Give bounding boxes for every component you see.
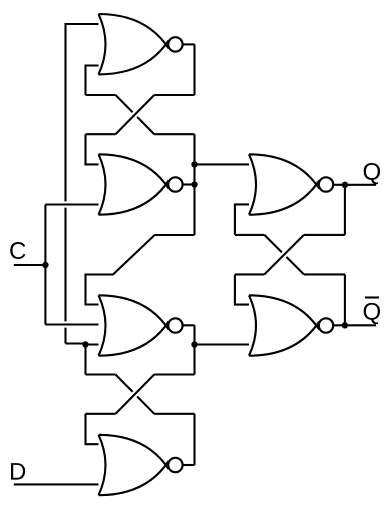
nor gate G2 (clock gate) — [99, 154, 168, 214]
wire: crossover2 top-left horizontal — [86, 373, 116, 375]
wire: right crossover top-left horizontal — [235, 234, 265, 236]
wire: G1 lower input stub — [86, 66, 106, 96]
wire: G6 output and Qbar lead — [333, 324, 376, 326]
bubble G5 — [319, 177, 333, 191]
wire: feedback vertical (G4 output node to G1 input), gaps at crossings — [64, 23, 66, 201]
wire: C to G2 lower input — [45, 203, 105, 205]
wire: C input lead — [14, 264, 46, 266]
junction node Q — [342, 182, 348, 188]
label Q — [364, 163, 380, 184]
wire: G1 output stub — [181, 43, 194, 45]
overbar of Qbar — [365, 296, 379, 298]
label Qbar — [364, 303, 380, 324]
wire: node vertical into crossover2 — [84, 345, 86, 375]
junction node feedback/G3 lower — [82, 341, 88, 347]
wire: G5 output and Q lead — [333, 184, 376, 186]
wire: crossover2 continuous diagonal (G3 out to G4 upper in) — [116, 375, 155, 414]
junction node G3out-to-G6 — [191, 341, 197, 347]
bubble G6 — [319, 318, 333, 332]
wire: G2 upper input elbow — [86, 134, 106, 164]
bubble G1 — [168, 37, 182, 51]
wire: G3 output stub — [181, 324, 194, 326]
wire: crossover1 bottom-left horizontal — [86, 133, 116, 135]
wire: right crossover bottom-left horizontal — [235, 273, 265, 275]
wire: G6 upper input elbow — [235, 274, 256, 304]
wire: crossover2 hop casing — [129, 389, 140, 400]
wire: G2 output to G5 upper input — [195, 163, 257, 165]
wire: right crossover bottom-right horizontal — [304, 273, 345, 275]
wire: C to G3 middle input — [45, 323, 106, 325]
nor gate G6 (Qbar latch) — [249, 295, 318, 355]
wire: crossover2 bottom-right horizontal — [154, 413, 194, 415]
wire: G2 output stub — [181, 183, 194, 185]
wire: feedback bottom elbow into node — [66, 342, 86, 344]
wire: G5 output vertical into right crossover — [344, 185, 346, 235]
wire: G4 output vertical — [193, 414, 195, 465]
wire: G3 output to G6 lower input — [195, 343, 257, 345]
wire: crossover1 continuous diagonal (G1 out to G2 upper in) — [116, 95, 155, 134]
nor gate G5 (Q latch) — [249, 154, 318, 214]
junction node G2out-to-G5 — [191, 161, 197, 167]
junction node C — [42, 262, 48, 268]
wire: right crossover top-right horizontal — [304, 234, 345, 236]
bubble G2 — [168, 177, 182, 191]
wire: crossover1 hop casing — [129, 109, 140, 120]
wire: crossover1 bottom-right horizontal — [154, 133, 194, 135]
label D — [11, 463, 25, 480]
junction node Qbar — [342, 322, 348, 328]
wire: right crossover hop casing — [279, 249, 290, 260]
label C — [10, 242, 25, 259]
wire: G6 output vertical — [344, 274, 346, 325]
wire: G4 upper input elbow — [86, 414, 106, 444]
bubble G3 — [168, 318, 182, 332]
wire: crossover1 top-left horizontal — [86, 94, 116, 96]
wire: crossover1 hidden diagonal (G2 out to G1 lower in) — [116, 95, 155, 134]
wire: G4 output stub — [181, 464, 194, 466]
wire: crossover2 bottom-left horizontal — [86, 413, 116, 415]
wire: G3 output vertical into crossover2 — [193, 325, 195, 374]
wire: C vertical bus — [44, 205, 46, 325]
bubble G4 — [168, 458, 182, 472]
wire: right crossover continuous diagonal (G5 out to G6 upper in) — [264, 235, 304, 275]
wire: right crossover hidden diagonal (G6 out to G5 lower in) — [264, 235, 304, 275]
wire: G1 upper input stub from feedback — [66, 23, 106, 25]
nor gate G3 (3-input) — [99, 295, 168, 355]
wire: crossover2 top-right horizontal — [154, 373, 194, 375]
wire: G1 output vertical into crossover1 — [193, 44, 195, 95]
nor gate G4 (D gate) — [99, 435, 168, 495]
wire: node to G3 lower input — [86, 343, 106, 345]
wire: crossover1 top-right horizontal — [154, 94, 194, 96]
nor gate G1 (top latch) — [99, 14, 168, 74]
wire: G5 lower input elbow — [235, 204, 256, 235]
wire: crossover2 hidden diagonal (G4 out to node) — [116, 375, 155, 414]
junction node G2 output — [191, 181, 197, 187]
wire: D input lead — [14, 483, 106, 485]
wire: G2 output node vertical — [193, 134, 195, 235]
wire: jog from G2 output down to G3 upper input — [86, 235, 195, 305]
